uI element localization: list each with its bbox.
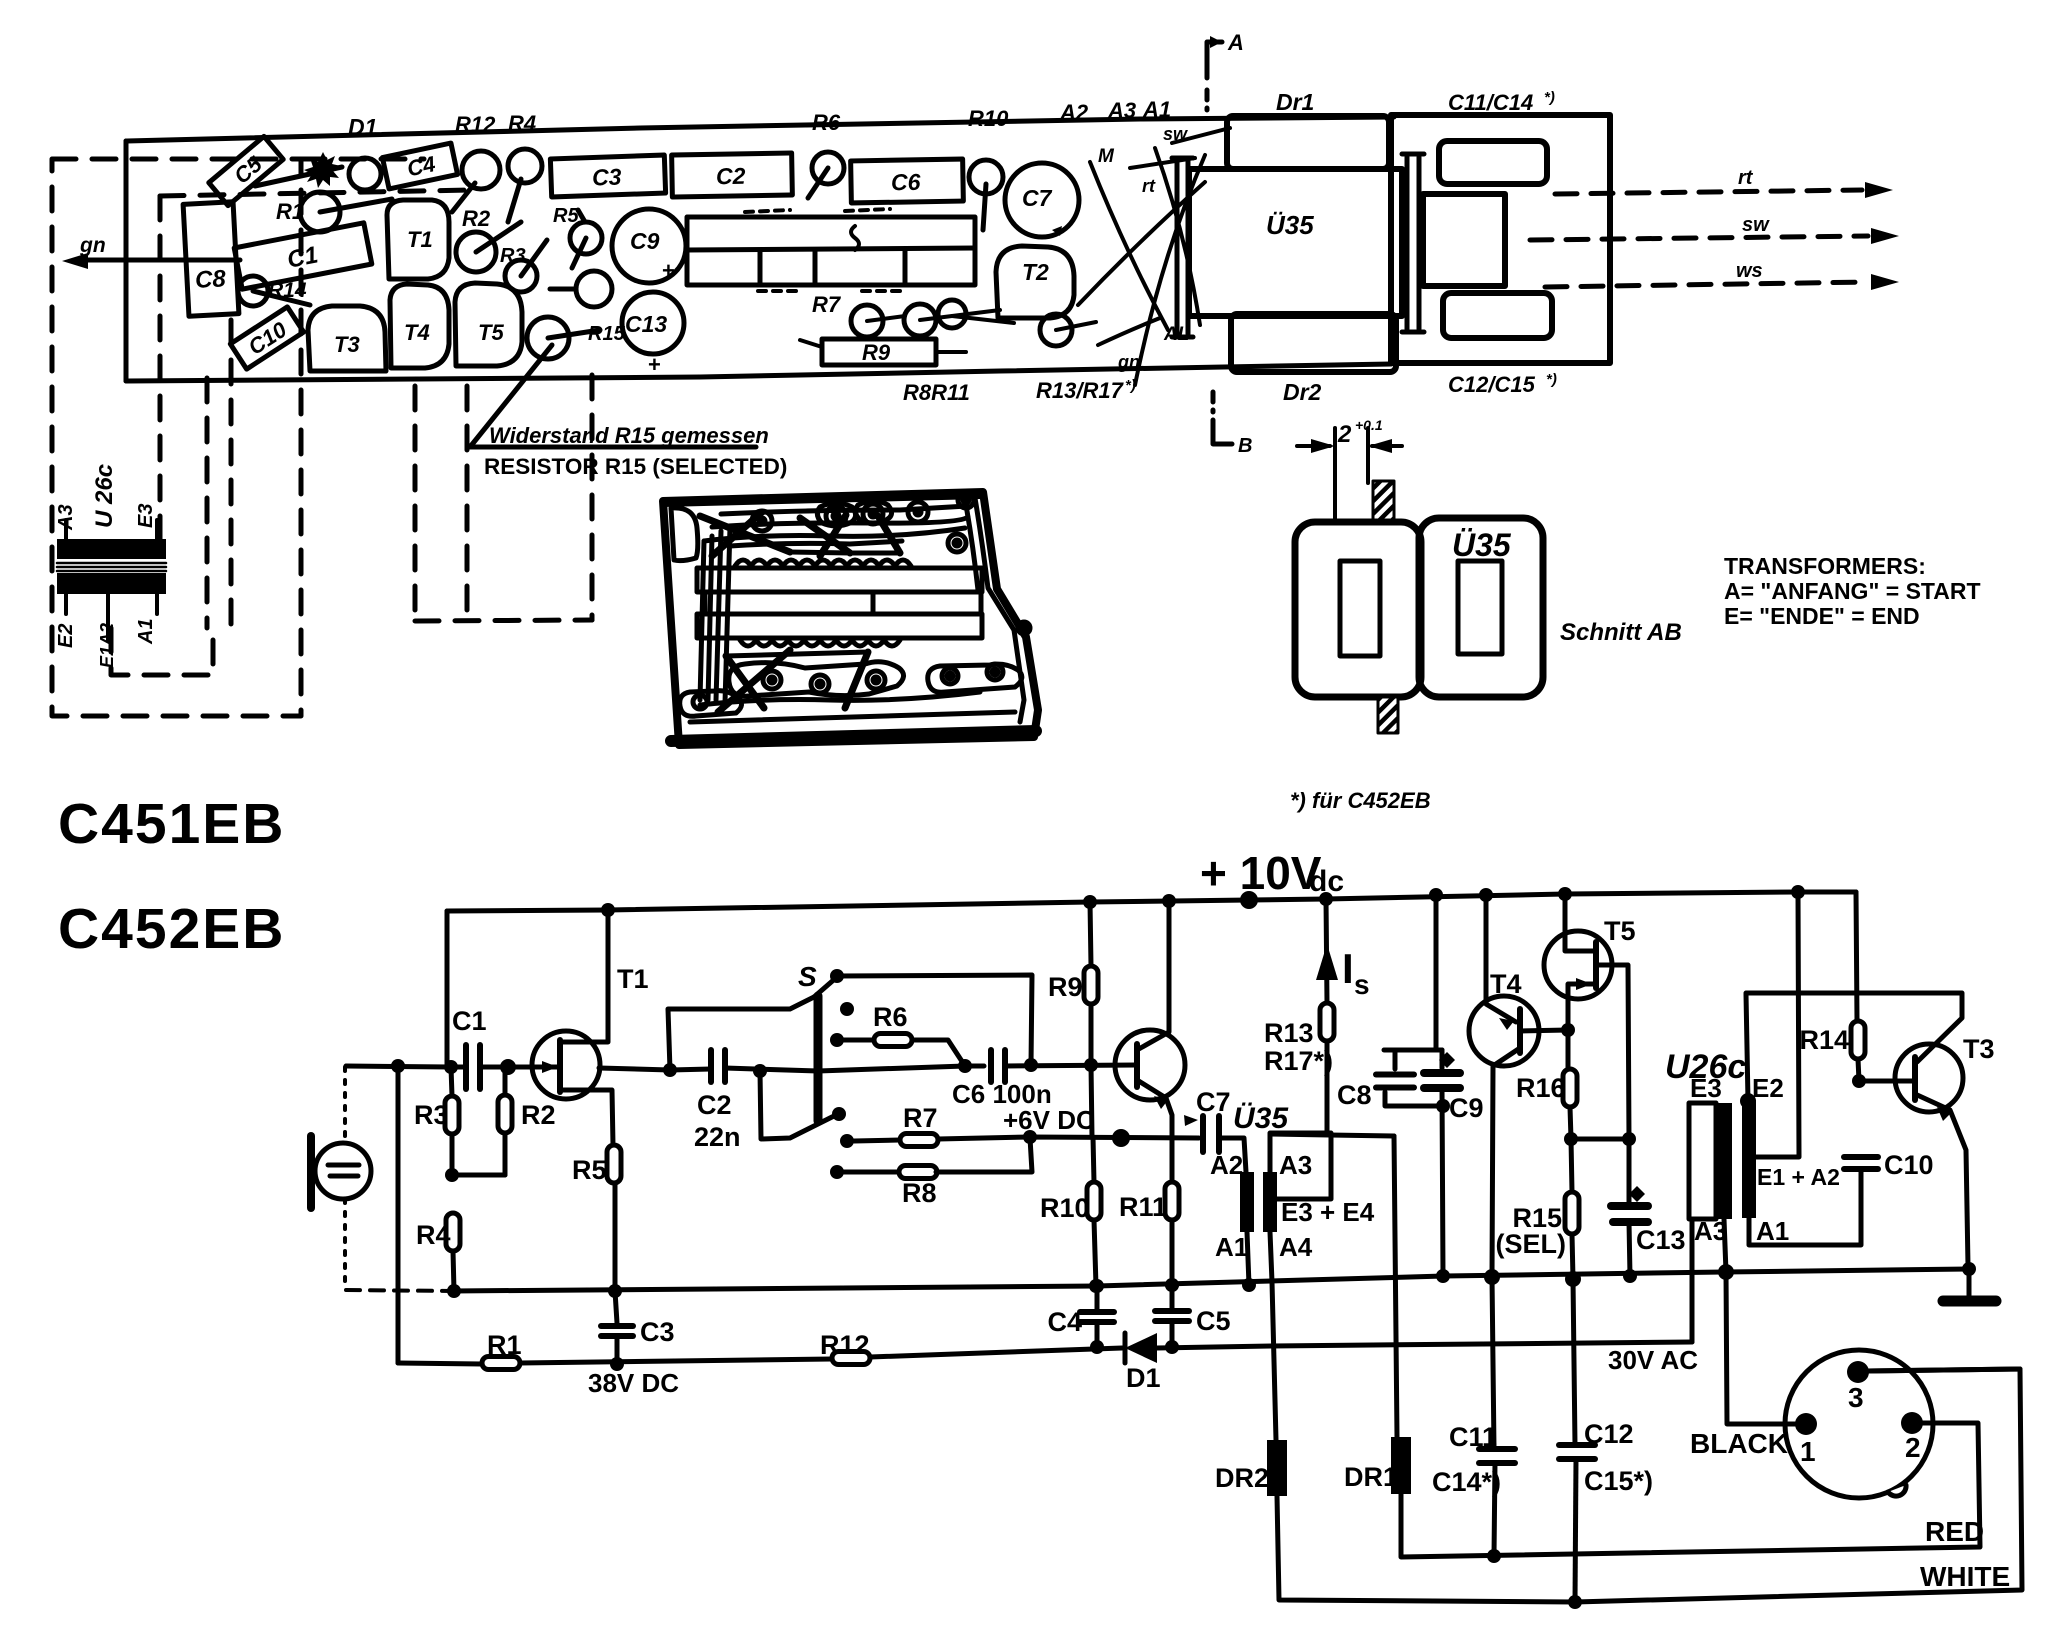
svg-text:M: M	[1098, 146, 1115, 167]
svg-text:C451EB: C451EB	[58, 792, 285, 856]
svg-text:+0.1: +0.1	[1355, 417, 1383, 433]
svg-text:A1: A1	[135, 618, 157, 645]
switch S (layout block)	[687, 217, 975, 285]
resistor R2	[503, 1067, 508, 1095]
PCB board outline	[126, 117, 1394, 381]
choke Dr1 (layout)	[1227, 116, 1389, 169]
svg-text:C9: C9	[630, 228, 660, 254]
resistor R3	[451, 1067, 452, 1096]
transformer U26c (symbol in dashed box)	[57, 539, 166, 559]
capacitor C7	[1200, 1116, 1206, 1152]
wire to C6	[818, 1066, 984, 1071]
capacitor C11/C14 (layout rect)	[1439, 141, 1547, 184]
svg-text:Schnitt AB: Schnitt AB	[1560, 619, 1682, 646]
resistor R3 (layout circle)	[505, 260, 537, 292]
capacitor C1	[463, 1045, 469, 1089]
diode D1 star symbol (layout)	[304, 152, 341, 188]
resistor R9	[1090, 902, 1091, 966]
switch upper lever and throw	[814, 977, 837, 997]
capacitor C6 (layout rect)	[851, 159, 964, 203]
capacitor C12/C15 (layout rect)	[1443, 293, 1552, 338]
node +10V junction dots	[601, 903, 615, 917]
svg-text:E3: E3	[1690, 1073, 1722, 1103]
svg-text:Dr1: Dr1	[1276, 89, 1314, 115]
wire 38V bottom line with R1 R12 D1	[398, 1363, 482, 1364]
resistor R13 (Is branch)	[1326, 899, 1327, 1003]
wire A3 bottom to BLACK	[1724, 1219, 1797, 1424]
XLR connector circle	[1785, 1350, 1933, 1498]
svg-text:C452EB: C452EB	[58, 897, 285, 961]
svg-text:C11: C11	[1449, 1422, 1497, 1452]
switch S pole bar	[814, 996, 823, 1121]
svg-text:A= "ANFANG" = START: A= "ANFANG" = START	[1724, 578, 1981, 604]
svg-text:+: +	[648, 352, 661, 377]
winding E3/A3 (U26c)	[1689, 1103, 1716, 1219]
wire T3 collector line	[1746, 993, 1962, 1062]
svg-text:E3: E3	[135, 504, 157, 528]
svg-text:rt: rt	[1142, 176, 1156, 196]
svg-text:R12: R12	[820, 1330, 870, 1360]
svg-text:R8R11: R8R11	[903, 380, 970, 405]
svg-text:*): *)	[1544, 89, 1555, 106]
winding E2/E1+A2/A1 (U26c)	[1742, 1100, 1756, 1218]
capacitor C1 (layout)	[234, 223, 372, 289]
capacitor C7 (layout big circle)	[1005, 163, 1079, 237]
resistor R12	[832, 1352, 870, 1365]
capacitor C10 (layout)	[230, 307, 303, 369]
svg-text:T5: T5	[1604, 916, 1636, 946]
capacitor C8	[1385, 1092, 1443, 1106]
wire R9 node down to +6V line	[1091, 1065, 1092, 1137]
wire E2 top riser	[1746, 994, 1748, 1101]
svg-text:R2: R2	[462, 206, 491, 231]
svg-text:E= "ENDE" = END: E= "ENDE" = END	[1724, 603, 1920, 629]
capacitor C4 (layout, rotated rect)	[382, 143, 457, 189]
svg-text:DR1: DR1	[1344, 1462, 1398, 1492]
svg-text:s: s	[1354, 969, 1370, 1000]
capacitor C13 (layout circle)	[622, 292, 684, 354]
svg-text:R9: R9	[1048, 972, 1083, 1002]
switch lower section	[760, 1071, 836, 1139]
transistor T1 (layout blob)	[387, 200, 449, 279]
svg-text:E2: E2	[55, 624, 77, 648]
resistor R1 (layout)	[300, 192, 340, 232]
wire switch feed upper	[668, 997, 814, 1070]
resistor R14	[1856, 892, 1857, 1021]
svg-text:RED: RED	[1925, 1516, 1984, 1547]
resistor R15 (layout circle)	[527, 317, 569, 359]
svg-text:C11/C14: C11/C14	[1448, 90, 1533, 115]
resistor R15	[1571, 1139, 1572, 1192]
choke Dr2 (layout)	[1231, 314, 1396, 372]
resistor R5	[607, 1145, 621, 1183]
svg-text:C8: C8	[1337, 1080, 1372, 1110]
svg-text:R13/R17: R13/R17	[1036, 378, 1125, 403]
transistor T4 (layout blob)	[390, 284, 449, 368]
wire DR1 to RED line	[1401, 1423, 1980, 1557]
svg-text:+: +	[662, 258, 675, 283]
svg-text:Ü35: Ü35	[1452, 527, 1512, 563]
svg-text:(SEL): (SEL)	[1496, 1229, 1567, 1259]
svg-text:A1: A1	[1142, 97, 1171, 122]
svg-text:R11: R11	[1119, 1192, 1167, 1222]
resistor R1	[482, 1357, 520, 1370]
svg-text:C8: C8	[194, 265, 227, 294]
outer box right (C11/C12 section)	[1391, 115, 1610, 363]
svg-text:T3: T3	[1963, 1034, 1995, 1064]
svg-text:C9: C9	[1449, 1093, 1484, 1123]
svg-text:2: 2	[1905, 1432, 1921, 1463]
resistor R9 (layout rect)	[822, 339, 936, 365]
wire E3 bottom to 30V AC	[1690, 1219, 1695, 1342]
winding A2/A1 (U35 primary)	[1240, 1172, 1254, 1232]
svg-text:C10: C10	[1884, 1150, 1934, 1180]
svg-text:C7: C7	[1196, 1087, 1231, 1117]
resistor R10 (layout circle)	[969, 160, 1003, 194]
capacitor C9 (layout big circle)	[612, 209, 686, 283]
svg-text:Ü35: Ü35	[1233, 1102, 1289, 1135]
capacitor C12	[1559, 1442, 1595, 1448]
svg-text:I: I	[1342, 945, 1354, 992]
svg-text:R6: R6	[873, 1002, 908, 1032]
svg-text:+ 10V: + 10V	[1200, 847, 1322, 899]
choke DR1	[1391, 1437, 1411, 1494]
svg-text:C2: C2	[716, 163, 746, 190]
svg-text:C15*): C15*)	[1584, 1466, 1653, 1496]
resistor R11	[1165, 1182, 1179, 1220]
svg-text:sw: sw	[1163, 124, 1188, 144]
capacitor C9 (electrolytic)	[1434, 895, 1439, 1050]
svg-text:R7: R7	[812, 292, 842, 317]
resistor R7	[900, 1134, 938, 1147]
capacitor C8 (layout)	[183, 202, 239, 316]
dashed output arrows rt/sw/ws	[1530, 190, 1868, 287]
svg-text:+6V DC: +6V DC	[1003, 1105, 1095, 1135]
svg-text:R5: R5	[553, 205, 579, 227]
svg-text:WHITE: WHITE	[1920, 1561, 2010, 1592]
transistor T3 (layout blob)	[308, 306, 386, 371]
svg-text:A1: A1	[1756, 1216, 1789, 1246]
svg-text:Widerstand R15 gemessen: Widerstand R15 gemessen	[489, 423, 769, 448]
resistor R8	[899, 1166, 937, 1179]
section marker A	[1207, 42, 1222, 110]
resistor R7 (layout circles)	[851, 305, 883, 337]
dimension 2+0.1	[1297, 428, 1402, 522]
section marker B	[1213, 392, 1232, 444]
svg-text:S: S	[798, 961, 817, 992]
core section left	[1295, 522, 1421, 697]
capacitor C5 (layout)	[209, 136, 283, 205]
svg-text:*) für C452EB: *) für C452EB	[1290, 788, 1431, 813]
svg-text:C3: C3	[640, 1317, 675, 1347]
capacitor C6	[988, 1050, 994, 1082]
svg-text:T5: T5	[478, 320, 504, 345]
svg-text:rt: rt	[1738, 167, 1754, 189]
resistor R14 (layout)	[238, 276, 268, 306]
transistor T2 (layout blob)	[996, 246, 1074, 318]
svg-text:1: 1	[1800, 1436, 1816, 1467]
wire R16/C13 link	[1571, 1137, 1629, 1142]
capacitor C2	[708, 1050, 714, 1082]
svg-text:A: A	[1227, 30, 1244, 55]
resistor R6 (layout circle)	[812, 152, 844, 184]
svg-text:R7: R7	[903, 1103, 938, 1133]
svg-text:A3: A3	[1279, 1150, 1312, 1180]
switch center contact	[840, 1002, 854, 1016]
svg-text:38V DC: 38V DC	[588, 1368, 679, 1398]
XLR pin 3	[1847, 1361, 1869, 1383]
svg-text:D1: D1	[1126, 1363, 1161, 1393]
svg-text:TRANSFORMERS:: TRANSFORMERS:	[1724, 553, 1926, 579]
transistor T1 (FET)	[532, 1031, 600, 1099]
capacitor C2 (layout rect)	[672, 153, 793, 197]
svg-text:A1: A1	[1215, 1232, 1248, 1262]
svg-text:R10: R10	[1040, 1193, 1090, 1223]
microphone capsule	[307, 1136, 315, 1208]
transistor T3 (NPN)	[1895, 1044, 1963, 1112]
svg-text:Ü35: Ü35	[1266, 210, 1314, 240]
svg-text:E1A2: E1A2	[97, 623, 117, 668]
svg-text:RESISTOR R15 (SELECTED): RESISTOR R15 (SELECTED)	[484, 454, 787, 479]
svg-text:R5: R5	[572, 1155, 607, 1185]
wire R3/R2 bottom link	[452, 1173, 505, 1178]
svg-text:R9: R9	[862, 340, 891, 365]
capacitor C4	[1095, 1286, 1100, 1309]
svg-text:C6: C6	[891, 169, 921, 196]
svg-text:gn: gn	[1117, 352, 1140, 372]
XLR pin 1	[1795, 1413, 1817, 1435]
svg-text:U 26c: U 26c	[91, 464, 118, 528]
capacitor C5	[1170, 1285, 1175, 1308]
svg-text:R10: R10	[968, 106, 1009, 131]
svg-text:T2: T2	[1022, 259, 1049, 285]
choke DR2	[1267, 1440, 1287, 1496]
wire H1 (R13/C8/A3 node)	[1270, 1134, 1394, 1136]
svg-text:C12: C12	[1584, 1419, 1634, 1449]
svg-text:C4: C4	[1047, 1307, 1082, 1337]
PCB solder-side artwork	[663, 492, 1038, 745]
svg-text:A3: A3	[55, 504, 77, 531]
svg-text:R12: R12	[455, 112, 496, 137]
wire DR2 to WHITE line	[1277, 1369, 2022, 1602]
svg-text:30V AC: 30V AC	[1608, 1345, 1698, 1375]
svg-text:C3: C3	[592, 164, 622, 191]
wire input line (mic to C1)	[346, 1066, 451, 1067]
core hatch stub bottom	[1378, 697, 1398, 733]
svg-text:R6: R6	[812, 110, 841, 135]
transistor T5 (FET)	[1544, 931, 1612, 999]
resistor R4	[446, 1213, 460, 1251]
svg-text:R17*): R17*)	[1264, 1046, 1333, 1076]
svg-text:C14*): C14*)	[1432, 1467, 1501, 1497]
svg-text:R3: R3	[500, 245, 526, 267]
capacitor C3 (layout rect)	[550, 155, 665, 197]
svg-text:gn: gn	[79, 234, 106, 257]
svg-text:R8: R8	[902, 1178, 937, 1208]
wire 0V mid rail	[452, 1269, 1969, 1291]
resistor R16	[1563, 1069, 1577, 1107]
ground	[1967, 1269, 1972, 1297]
wire C6 to T2 base	[1005, 1065, 1137, 1066]
svg-text:E1 + A2: E1 + A2	[1757, 1164, 1840, 1190]
wire C7 to A2 winding	[1219, 1138, 1246, 1172]
svg-text:sw: sw	[1742, 214, 1770, 236]
svg-text:T4: T4	[404, 320, 430, 345]
svg-text:A3: A3	[1107, 98, 1136, 123]
transistor T4 (PNP)	[1469, 996, 1539, 1066]
svg-text:R14: R14	[1799, 1025, 1849, 1055]
switch throw R8	[830, 1165, 844, 1179]
svg-text:22n: 22n	[694, 1122, 741, 1152]
wire left corner drop to input line	[445, 911, 450, 1067]
resistor R4 (layout circle)	[508, 149, 542, 183]
svg-text:R2: R2	[521, 1100, 556, 1130]
svg-text:R3: R3	[414, 1100, 449, 1130]
wire C1 to T1 gate	[480, 1065, 557, 1070]
resistor R2 (layout circle)	[456, 232, 496, 272]
resistor R6	[830, 1033, 844, 1047]
node gn (arrow)	[85, 258, 240, 263]
svg-text:C13: C13	[1636, 1225, 1686, 1255]
wire E1+A2 tap to rail	[1756, 892, 1799, 1157]
svg-text:C13: C13	[625, 311, 667, 337]
svg-text:R4: R4	[508, 111, 536, 136]
svg-text:T3: T3	[334, 332, 360, 357]
svg-text:Dr2: Dr2	[1283, 379, 1322, 405]
wire dotted mic connections	[343, 1067, 347, 1289]
middle contact rect (layout)	[1423, 194, 1505, 286]
winding A3/A4 (U35 secondary)	[1263, 1172, 1277, 1232]
svg-text:T4: T4	[1490, 969, 1522, 999]
diode D1	[1123, 1333, 1128, 1363]
capacitor C10	[1844, 1154, 1878, 1160]
svg-text:C7: C7	[1022, 185, 1053, 211]
switch throw R7	[840, 1134, 854, 1148]
core section right U35	[1419, 518, 1543, 697]
dashed enclosure (capsule/transformer box)	[52, 159, 592, 716]
svg-text:C12/C15: C12/C15	[1448, 372, 1536, 397]
svg-text:B: B	[1238, 435, 1252, 457]
svg-text:BLACK: BLACK	[1690, 1428, 1788, 1459]
capacitor C13 (electrolytic)	[1629, 1186, 1645, 1202]
wire A4 down to DR2	[1270, 1232, 1276, 1440]
wire T3 emitter	[1915, 1094, 1969, 1269]
svg-text:R16: R16	[1516, 1073, 1566, 1103]
transistor T5 (layout blob)	[455, 283, 522, 366]
resistor R10	[1087, 1182, 1101, 1220]
svg-text:3: 3	[1848, 1382, 1864, 1413]
wire mic feed vertical to R1 line	[396, 1066, 401, 1363]
wire T1 out to switch region	[599, 1068, 711, 1070]
resistor R12 (layout circle)	[462, 151, 500, 189]
svg-text:C1: C1	[452, 1006, 487, 1036]
svg-text:A4: A4	[1279, 1232, 1313, 1262]
transistor T2 (NPN)	[1115, 1030, 1185, 1100]
XLR pin 2	[1901, 1412, 1923, 1434]
wire T5 gate down	[1596, 965, 1629, 1139]
svg-text:*): *)	[1546, 371, 1557, 388]
callout line to resistor R15 note	[470, 345, 756, 447]
svg-text:*): *)	[1125, 377, 1136, 394]
svg-text:T1: T1	[407, 227, 433, 252]
capsule wires (layout curves)	[1078, 128, 1230, 385]
svg-text:R13: R13	[1264, 1018, 1314, 1048]
svg-text:2: 2	[1337, 421, 1352, 448]
svg-text:A2: A2	[1059, 100, 1089, 125]
wire A1 bottom to C10	[1749, 1171, 1861, 1245]
svg-text:AL: AL	[1163, 324, 1189, 345]
svg-text:D1: D1	[348, 114, 377, 140]
svg-text:A2: A2	[1210, 1150, 1243, 1180]
svg-text:DR2: DR2	[1215, 1463, 1269, 1493]
svg-text:C2: C2	[697, 1090, 732, 1120]
svg-text:ws: ws	[1736, 260, 1763, 282]
node T4 base junction	[1520, 1030, 1568, 1031]
wire A3 box loop	[1270, 1133, 1331, 1199]
svg-text:T1: T1	[617, 964, 649, 994]
U35 core side bars	[1172, 154, 1424, 337]
capacitor C11	[1479, 1446, 1515, 1452]
svg-text:E2: E2	[1752, 1073, 1784, 1103]
svg-text:R4: R4	[416, 1220, 451, 1250]
svg-text:R1: R1	[487, 1330, 522, 1360]
core hatch stub top	[1373, 481, 1394, 521]
wire +10V top rail	[447, 892, 1856, 911]
svg-text:C5: C5	[1196, 1306, 1231, 1336]
capacitor C3	[615, 1291, 617, 1323]
wire DR1 feed from 0V rail	[1394, 1136, 1397, 1437]
transformer U35 (layout)	[1189, 169, 1402, 316]
resistor R5 (layout circle)	[570, 222, 602, 254]
